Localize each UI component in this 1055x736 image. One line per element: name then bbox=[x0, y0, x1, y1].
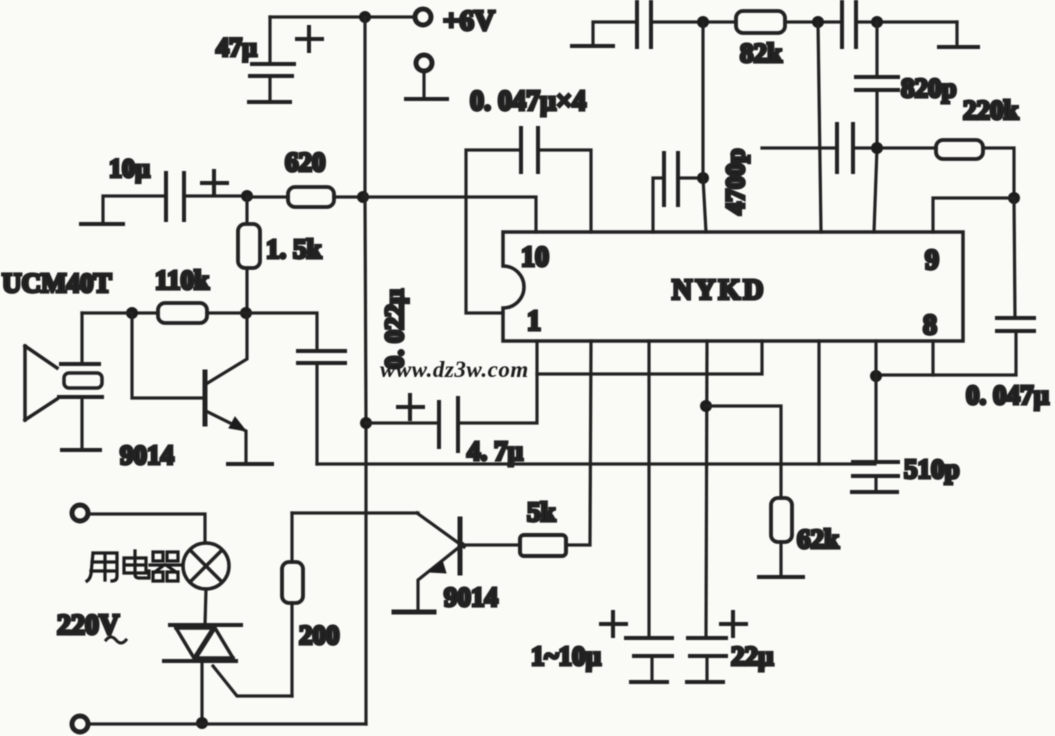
svg-text:620: 620 bbox=[285, 147, 326, 177]
ground under 47u bbox=[249, 100, 290, 104]
resistor R 62k bbox=[706, 406, 792, 576]
transducer UCM40T horn bbox=[25, 346, 57, 420]
svg-text:10: 10 bbox=[521, 242, 549, 273]
wire IC pin to 22u bbox=[706, 341, 707, 638]
terminal AC top bbox=[72, 505, 88, 521]
capacitor C 47u electrolytic bbox=[250, 17, 294, 101]
svg-text:0. 047µ×4: 0. 047µ×4 bbox=[470, 86, 586, 117]
wire 220k down to node bbox=[983, 148, 1014, 198]
wire triac to bottom rail bbox=[200, 661, 203, 723]
label yong dian qi bbox=[87, 551, 181, 581]
lamp load bbox=[183, 543, 229, 589]
capacitor C second row bbox=[837, 124, 853, 172]
wire bottom rail bbox=[88, 722, 366, 725]
resistor R 200 bbox=[282, 513, 303, 696]
svg-text:UCM40T: UCM40T bbox=[2, 268, 112, 298]
junction 220k node bbox=[1008, 192, 1020, 204]
wire pin 8 stub bbox=[931, 341, 934, 375]
junction 820p node bbox=[871, 142, 883, 154]
terminal aux bbox=[416, 55, 432, 71]
svg-text:62k: 62k bbox=[797, 524, 839, 554]
tilde under V bbox=[106, 637, 126, 643]
junction top right C bbox=[871, 16, 883, 28]
ground under aux terminal bbox=[406, 71, 447, 99]
node C junction bbox=[126, 307, 138, 319]
node B junction bbox=[240, 307, 252, 319]
wire 82k to cap bbox=[785, 20, 842, 23]
junction 4700p node bbox=[697, 172, 709, 184]
svg-text:820p: 820p bbox=[901, 73, 957, 103]
wire pin1 loop to cap1 bbox=[466, 150, 521, 313]
ground under 510p bbox=[852, 490, 897, 494]
wire cap to right ground bbox=[856, 20, 957, 23]
ground under Q1 emitter bbox=[228, 462, 272, 466]
terminal +6V bbox=[415, 9, 431, 25]
op-amp U1 NYKD IC body bbox=[503, 232, 963, 341]
transistor Q2 9014 body bbox=[417, 513, 464, 611]
junction 510p node bbox=[870, 370, 882, 382]
capacitor C 0.047u no2 bbox=[653, 153, 703, 232]
ground under 62k bbox=[759, 575, 803, 579]
svg-text:47µ: 47µ bbox=[216, 33, 257, 62]
resistor R 5k bbox=[520, 535, 566, 556]
wire IC pin stub right of 62k bbox=[817, 341, 820, 464]
capacitor C 0.022u bbox=[246, 313, 345, 464]
wire lamp to triac bbox=[205, 589, 206, 625]
wire IC pin to 1-10u bbox=[647, 341, 650, 638]
ground under Q2 emitter bbox=[394, 610, 434, 615]
wire pin vertical 82k node bbox=[818, 22, 821, 232]
wire 620 node to IC pin bbox=[363, 197, 536, 232]
triac gate wire bbox=[213, 666, 292, 696]
wire IC lower bus bbox=[537, 341, 762, 374]
capacitor C 0.047u right bbox=[876, 198, 1034, 375]
transducer UCM40T crystal bbox=[59, 313, 102, 449]
capacitor C 10u bbox=[166, 173, 184, 220]
wire +6V top rail bbox=[270, 15, 414, 18]
svg-text:220k: 220k bbox=[963, 95, 1019, 125]
plus mark 10u bbox=[202, 171, 227, 195]
capacitor C 22u bbox=[687, 638, 726, 682]
capacitor C 820p bbox=[856, 22, 898, 232]
wire pin vertical 4700p bbox=[703, 22, 706, 232]
transistor Q1 9014 base wire bbox=[132, 313, 203, 398]
junction 62k node bbox=[700, 400, 712, 412]
svg-text:82k: 82k bbox=[740, 38, 782, 68]
ground top right bbox=[939, 22, 978, 47]
svg-text:8: 8 bbox=[923, 310, 937, 341]
ground at 10u input bbox=[81, 196, 166, 224]
capacitor C 510p bbox=[853, 376, 898, 491]
svg-text:1: 1 bbox=[527, 306, 541, 337]
svg-text:9014: 9014 bbox=[120, 440, 174, 470]
triac T1 bbox=[164, 625, 241, 661]
junction bottom rail bbox=[196, 717, 208, 729]
wire node C to transducer bbox=[82, 311, 132, 314]
wire IC pin to 5k bbox=[566, 341, 591, 545]
svg-text:1~10µ: 1~10µ bbox=[531, 641, 602, 671]
wire to 82k bbox=[651, 20, 736, 23]
node A junction bbox=[241, 190, 253, 202]
capacitor C 4.7u bbox=[366, 341, 537, 451]
resistor R 82k bbox=[736, 11, 785, 33]
junction 4.7u node bbox=[360, 417, 372, 429]
resistor R 620 bbox=[247, 187, 363, 207]
capacitor C top no3 bbox=[637, 2, 651, 47]
svg-text:www.dz3w.com: www.dz3w.com bbox=[380, 357, 529, 382]
svg-text:4700p: 4700p bbox=[721, 149, 750, 215]
svg-text:110k: 110k bbox=[155, 265, 209, 295]
resistor R 1.5k bbox=[238, 196, 260, 313]
wire 5k to Q2 base bbox=[462, 543, 520, 546]
capacitor C 0.047u no1 bbox=[521, 128, 538, 172]
wire top right rail ground left bbox=[572, 22, 637, 46]
plus mark 22u bbox=[721, 612, 746, 636]
junction top right A bbox=[697, 16, 709, 28]
transistor Q1 9014 body bbox=[205, 313, 247, 463]
wire node to pin 9 bbox=[933, 198, 1014, 232]
svg-text:5k: 5k bbox=[527, 497, 556, 527]
svg-text:9: 9 bbox=[925, 245, 939, 276]
svg-text:1. 5k: 1. 5k bbox=[266, 234, 322, 264]
svg-text:510p: 510p bbox=[904, 454, 960, 484]
svg-text:10µ: 10µ bbox=[109, 154, 150, 183]
wire common bottom line bbox=[317, 462, 875, 465]
ground under transducer bbox=[62, 448, 100, 452]
svg-text:NYKD: NYKD bbox=[672, 275, 766, 306]
plus mark 4.7u bbox=[398, 395, 423, 419]
junction top right B bbox=[812, 16, 824, 28]
wire Q2 collector to 200 bbox=[292, 511, 418, 514]
junction 620 output bbox=[357, 191, 369, 203]
svg-text:22µ: 22µ bbox=[731, 641, 774, 671]
svg-text:0. 047µ: 0. 047µ bbox=[966, 380, 1050, 410]
capacitor C top no4 bbox=[842, 2, 856, 47]
svg-text:+6V: +6V bbox=[443, 5, 495, 37]
svg-text:200: 200 bbox=[299, 620, 340, 650]
svg-text:9014: 9014 bbox=[444, 582, 498, 612]
svg-text:4. 7µ: 4. 7µ bbox=[467, 436, 524, 466]
terminal AC bottom bbox=[72, 716, 88, 732]
plus mark 47u bbox=[297, 27, 322, 51]
wire AC top to lamp bbox=[88, 514, 205, 543]
plus mark 1-10u bbox=[601, 612, 626, 636]
resistor R 220k bbox=[936, 140, 983, 159]
wire IC bottom pin to 510p node bbox=[874, 341, 877, 376]
wire 10u to node A bbox=[184, 194, 247, 197]
capacitor C 1-10u bbox=[626, 638, 672, 682]
junction top rail / long vertical bbox=[359, 11, 371, 23]
wire cap to 220k bbox=[853, 146, 936, 149]
resistor R 110k bbox=[132, 303, 246, 323]
wire cap1 to top pin bbox=[538, 150, 591, 232]
wire second row to IC pin bbox=[762, 146, 837, 149]
wire long vertical common line bbox=[365, 17, 366, 724]
